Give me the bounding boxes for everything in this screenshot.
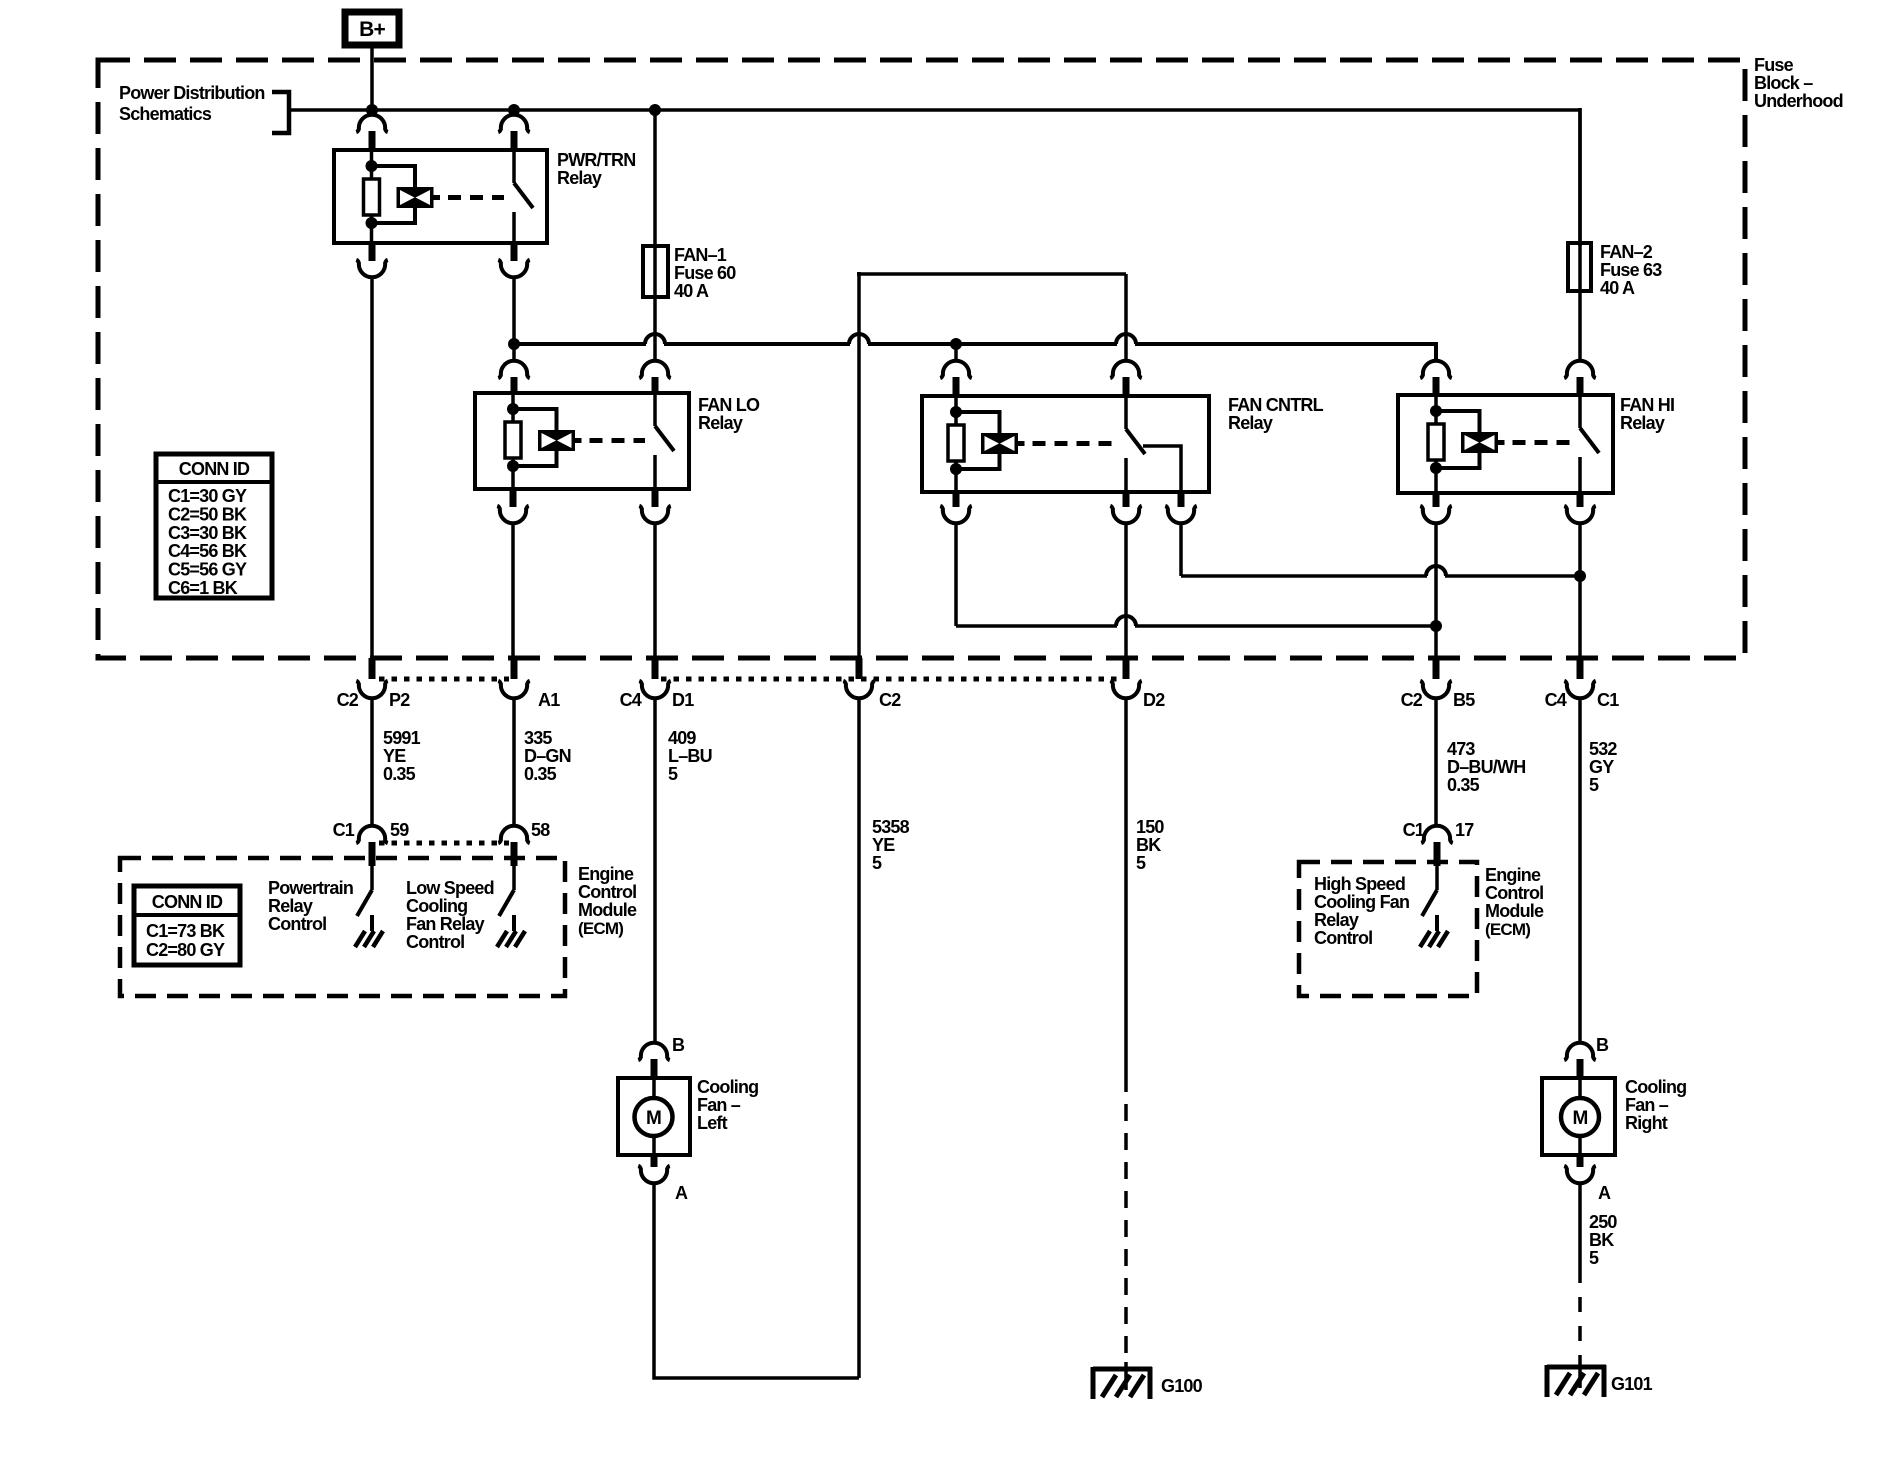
svg-text:P2: P2: [389, 690, 410, 710]
svg-text:FAN HI: FAN HI: [1620, 395, 1674, 415]
label circuit 409 L-BU 5: [668, 728, 712, 784]
svg-text:A: A: [675, 1183, 688, 1203]
wire: FAN LO coil low to A1: [511, 525, 515, 660]
label circuit 473 D-BU/WH 0.35: [1447, 739, 1525, 795]
FAN HI solenoid winding: [1436, 411, 1505, 468]
svg-text:M: M: [1572, 1108, 1587, 1129]
FAN HI switch contact: [1580, 395, 1599, 493]
FAN HI mechanical link (dashed): [1513, 440, 1571, 445]
svg-text:C4: C4: [620, 690, 642, 710]
svg-text:Fan –: Fan –: [1625, 1095, 1669, 1115]
svg-text:CONN ID: CONN ID: [152, 892, 223, 912]
Powertrain Relay Control label: [268, 878, 353, 934]
connector: FAN LO switch output: [639, 489, 670, 523]
svg-text:59: 59: [390, 820, 409, 840]
ground G101: [1547, 1355, 1653, 1397]
svg-text:C2=80 GY: C2=80 GY: [146, 940, 225, 960]
connector row terminal P2: [337, 658, 411, 710]
svg-text:Fuse 63: Fuse 63: [1600, 260, 1662, 280]
svg-text:40 A: 40 A: [1600, 278, 1635, 298]
svg-text:Right: Right: [1625, 1113, 1668, 1133]
wire circuit 150 unreferenced section (dashed): [1124, 1075, 1128, 1362]
relay FAN HI box: [1398, 395, 1613, 493]
fuse FAN-1 60 40A: [643, 246, 668, 297]
svg-text:Relay: Relay: [1620, 413, 1665, 433]
wire: FAN LO switch output to D1: [653, 525, 657, 660]
label circuit 150 BK 5: [1136, 817, 1164, 873]
svg-text:BK: BK: [1589, 1230, 1614, 1250]
ECM connector boundary (dotted) P2-A1: [379, 677, 509, 682]
svg-text:C2: C2: [879, 690, 901, 710]
connector: FAN HI switch terminal: [1564, 361, 1595, 397]
wire FAN-2 fuse to FAN HI switch: [1578, 108, 1582, 360]
wire: left fan return to relay loop: [654, 1185, 859, 1378]
PWR/TRN mechanical link (dashed): [448, 195, 504, 200]
connector row terminal D1: [620, 658, 695, 710]
svg-text:Block –: Block –: [1754, 73, 1813, 93]
svg-text:Control: Control: [1485, 883, 1543, 903]
FAN LO solenoid winding: [513, 409, 582, 466]
Fuse Block - Underhood label: [1754, 55, 1843, 111]
svg-text:C1=73 BK: C1=73 BK: [146, 921, 225, 941]
svg-text:Underhood: Underhood: [1754, 91, 1843, 111]
FAN LO mechanical link (dashed): [590, 438, 646, 443]
connector ECM pin 59 (C1): [333, 820, 410, 866]
connector: FAN CNTRL aux throw: [1165, 492, 1196, 523]
wire circuit 250 unreferenced section (dashed): [1578, 1268, 1582, 1355]
FAN-1 fuse label: [674, 245, 736, 301]
FAN HI label: [1620, 395, 1674, 433]
wire to PWR/TRN coil: [370, 110, 374, 114]
svg-text:G101: G101: [1611, 1374, 1653, 1394]
wire circuit 150 to G100: [1124, 700, 1128, 1075]
wire circuit 5358 (fan return): [857, 700, 861, 1378]
relay FAN LO box: [475, 393, 689, 489]
wire: FAN CNTRL coil low down: [954, 525, 958, 626]
svg-text:A1: A1: [538, 690, 560, 710]
svg-text:A: A: [1598, 1183, 1611, 1203]
wire circuit 5991: [370, 700, 374, 825]
label circuit 5991 YE 0.35: [383, 728, 421, 784]
PWR/TRN switch contact: [514, 150, 533, 243]
svg-text:C1=30 GY: C1=30 GY: [168, 486, 247, 506]
ECM connector boundary (dotted) D1-D2: [661, 677, 1121, 682]
wire B+ to FAN-1 fuse: [653, 110, 657, 360]
connector: FAN CNTRL switch terminal: [1110, 361, 1141, 398]
connector: FAN HI coil terminal: [1420, 361, 1451, 397]
connector: left fan terminal B: [638, 1035, 685, 1080]
PWR/TRN coil wire: [366, 150, 378, 243]
svg-text:C1: C1: [333, 820, 355, 840]
svg-text:(ECM): (ECM): [1485, 920, 1530, 939]
svg-text:473: 473: [1447, 739, 1475, 759]
wire hop over D2 wire: [1116, 616, 1136, 626]
node: FAN CNTRL coil junction: [950, 338, 962, 350]
connector: PWR/TRN coil low side: [356, 243, 387, 277]
svg-text:5: 5: [1589, 1248, 1599, 1268]
CONN ID table (fuse block): [156, 454, 272, 598]
wire: FAN HI coil low to B5: [1434, 525, 1438, 660]
wire hop over FAN CNTRL switch wire: [1116, 334, 1136, 344]
svg-text:YE: YE: [872, 835, 895, 855]
svg-text:GY: GY: [1589, 757, 1614, 777]
B+ battery feed terminal: [345, 12, 399, 45]
svg-text:FAN LO: FAN LO: [698, 395, 760, 415]
svg-text:0.35: 0.35: [383, 764, 416, 784]
PWR/TRN solenoid winding: [372, 166, 441, 223]
svg-text:5991: 5991: [383, 728, 421, 748]
svg-text:M: M: [646, 1108, 661, 1129]
svg-text:Cooling: Cooling: [1625, 1077, 1686, 1097]
svg-text:Low Speed: Low Speed: [406, 878, 494, 898]
connector: FAN LO coil terminal: [498, 360, 529, 395]
svg-text:B5: B5: [1453, 690, 1475, 710]
FAN LO switch contact: [655, 393, 674, 489]
FAN CNTRL mechanical link (dashed): [1033, 441, 1117, 446]
svg-text:B: B: [1596, 1035, 1609, 1055]
connector: PWR/TRN switch output: [498, 243, 529, 277]
connector: FAN LO coil low: [497, 489, 528, 523]
node: switched B+ / FAN LO coil junction: [508, 338, 520, 350]
wire: B+ bus across top: [289, 108, 1580, 112]
svg-text:C4=56 BK: C4=56 BK: [168, 541, 247, 561]
connector: FAN LO switch terminal: [639, 361, 670, 395]
svg-text:PWR/TRN: PWR/TRN: [557, 150, 635, 170]
svg-text:B+: B+: [359, 18, 385, 41]
svg-text:0.35: 0.35: [1447, 775, 1480, 795]
svg-text:D–BU/WH: D–BU/WH: [1447, 757, 1525, 777]
svg-text:B: B: [672, 1035, 685, 1055]
svg-text:Power Distribution: Power Distribution: [119, 83, 265, 103]
label circuit 335 D-GN 0.35: [524, 728, 571, 784]
wire B+ down to bus: [370, 45, 374, 110]
svg-text:C6=1 BK: C6=1 BK: [168, 578, 238, 598]
PWR/TRN coil resistor: [364, 179, 380, 215]
wire: left fan return riser: [857, 272, 861, 660]
svg-text:Powertrain: Powertrain: [268, 878, 353, 898]
svg-text:5: 5: [872, 853, 882, 873]
svg-text:532: 532: [1589, 739, 1617, 759]
svg-text:5: 5: [1589, 775, 1599, 795]
Low Speed Cooling Fan Relay Control label: [406, 878, 494, 952]
svg-text:BK: BK: [1136, 835, 1161, 855]
wire circuit 250: [1578, 1185, 1582, 1268]
svg-text:CONN ID: CONN ID: [179, 459, 250, 479]
svg-text:58: 58: [531, 820, 550, 840]
CONN ID table (ECM): [134, 886, 240, 965]
svg-text:150: 150: [1136, 817, 1164, 837]
svg-text:FAN CNTRL: FAN CNTRL: [1228, 395, 1324, 415]
svg-text:Cooling: Cooling: [697, 1077, 758, 1097]
svg-text:D2: D2: [1143, 690, 1165, 710]
Powertrain relay control driver switch: [357, 866, 372, 916]
wire to PWR/TRN switch: [512, 110, 516, 114]
FAN LO label: [698, 395, 760, 433]
FAN HI coil resistor: [1428, 424, 1444, 460]
motor: Cooling Fan Right: [1542, 1078, 1615, 1155]
relay PWR/TRN box: [334, 150, 547, 243]
wire circuit 532: [1578, 700, 1582, 1041]
node: junction B+/PWR-TRN coil: [366, 104, 378, 116]
svg-text:5: 5: [1136, 853, 1146, 873]
fuse FAN-2 63 40A: [1568, 243, 1591, 291]
svg-text:0.35: 0.35: [524, 764, 557, 784]
svg-text:L–BU: L–BU: [668, 746, 712, 766]
svg-text:5: 5: [668, 764, 678, 784]
node: junction B+/FAN-1 fuse: [649, 104, 661, 116]
svg-text:C3=30 BK: C3=30 BK: [168, 523, 247, 543]
wire: switched B+ down to coil bus: [512, 279, 516, 360]
svg-text:Fan –: Fan –: [697, 1095, 741, 1115]
Cooling Fan - Left label: [697, 1077, 758, 1133]
node: coil tie into FAN HI coil low: [1430, 620, 1442, 632]
svg-text:17: 17: [1455, 820, 1474, 840]
High Speed Cooling Fan Relay Control label: [1314, 874, 1409, 948]
wire: drop to FAN-2 fuse: [1578, 108, 1582, 246]
svg-text:Engine: Engine: [1485, 865, 1541, 885]
svg-text:Engine: Engine: [578, 864, 634, 884]
label circuit 532 GY 5: [1589, 739, 1617, 795]
FAN CNTRL switch contact: [1126, 396, 1145, 492]
svg-text:Relay: Relay: [557, 168, 602, 188]
svg-text:C5=56 GY: C5=56 GY: [168, 560, 247, 580]
ECM label (right): [1485, 865, 1544, 939]
svg-text:Fuse 60: Fuse 60: [674, 263, 736, 283]
FAN CNTRL switch to aux throw wire: [1143, 446, 1181, 492]
connector: FAN CNTRL switch common: [1110, 492, 1141, 523]
ground (high speed driver): [1420, 915, 1448, 947]
connector: PWR/TRN coil terminal: [356, 115, 387, 152]
svg-text:D1: D1: [672, 690, 694, 710]
wire: FAN HI switch output to C1: [1578, 525, 1582, 660]
svg-text:250: 250: [1589, 1212, 1617, 1232]
connector: right fan terminal A: [1564, 1155, 1611, 1203]
wire: aux throw down: [1179, 525, 1183, 576]
connector row terminal A1: [498, 658, 560, 710]
svg-text:Relay: Relay: [1228, 413, 1273, 433]
Cooling Fan - Right label: [1625, 1077, 1686, 1133]
svg-text:Module: Module: [1485, 901, 1544, 921]
connector: PWR/TRN switch terminal: [498, 115, 529, 152]
Power Distribution Schematics label: [119, 83, 265, 124]
wire: FAN CNTRL switch common to D2: [1124, 525, 1128, 660]
svg-text:Control: Control: [406, 932, 464, 952]
svg-text:Control: Control: [578, 882, 636, 902]
wire: circuit 5991 coil low side down: [370, 279, 374, 660]
svg-text:5358: 5358: [872, 817, 910, 837]
Engine Control Module (right) boundary dashed: [1299, 862, 1477, 996]
svg-text:FAN–1: FAN–1: [674, 245, 727, 265]
svg-text:G100: G100: [1161, 1376, 1203, 1396]
connector: FAN CNTRL coil terminal: [940, 344, 971, 398]
svg-text:C4: C4: [1545, 690, 1567, 710]
svg-text:FAN–2: FAN–2: [1600, 242, 1653, 262]
wire: loop top across: [857, 272, 1126, 276]
svg-text:Cooling: Cooling: [406, 896, 467, 916]
relay FAN CNTRL box: [922, 396, 1209, 492]
svg-text:Relay: Relay: [698, 413, 743, 433]
wire: aux throw over to FAN HI output: [1181, 574, 1580, 578]
connector: FAN CNTRL coil low: [940, 492, 971, 523]
connector: FAN HI coil low: [1420, 493, 1451, 523]
label circuit 250 BK 5: [1589, 1212, 1617, 1268]
svg-text:C2=50 BK: C2=50 BK: [168, 504, 247, 524]
wire circuit 409: [653, 700, 657, 1041]
wire hop over fan return wire: [849, 334, 869, 344]
connector: left fan terminal A: [638, 1155, 688, 1203]
PWR/TRN label: [557, 150, 635, 188]
ground (powertrain driver): [355, 915, 383, 947]
svg-text:C2: C2: [1401, 690, 1423, 710]
wire: relay coil supply bus: [514, 342, 1436, 360]
svg-text:YE: YE: [383, 746, 406, 766]
svg-text:Module: Module: [578, 900, 637, 920]
svg-text:C1: C1: [1597, 690, 1619, 710]
wire circuit 335: [512, 700, 516, 825]
ground G100: [1093, 1362, 1203, 1399]
FAN LO coil resistor: [505, 422, 521, 458]
svg-text:Cooling Fan: Cooling Fan: [1314, 892, 1409, 912]
wire circuit 473: [1434, 700, 1438, 825]
label circuit 5358 YE 5: [872, 817, 910, 873]
connector row terminal C1: [1545, 658, 1620, 710]
Fuse Block - Underhood boundary (dashed): [98, 60, 1745, 658]
svg-text:Relay: Relay: [268, 896, 313, 916]
connector: FAN HI switch output: [1564, 493, 1595, 523]
svg-text:Fan Relay: Fan Relay: [406, 914, 485, 934]
svg-text:C1: C1: [1403, 820, 1425, 840]
connector ECM pin 58: [498, 820, 550, 866]
svg-text:(ECM): (ECM): [578, 919, 623, 938]
connector ECM pin 17 (C1): [1403, 820, 1475, 866]
FAN CNTRL coil wire: [950, 396, 962, 492]
wire hop over FAN-1 feed: [645, 334, 665, 344]
FAN-2 fuse label: [1600, 242, 1662, 298]
svg-text:Schematics: Schematics: [119, 104, 212, 124]
connector: right fan terminal B: [1564, 1035, 1609, 1080]
node: tie into FAN HI switch output: [1574, 570, 1586, 582]
ECM pin boundary (dotted) 59-58: [379, 841, 509, 846]
svg-text:Fuse: Fuse: [1754, 55, 1794, 75]
FAN CNTRL solenoid winding: [956, 412, 1025, 469]
svg-text:409: 409: [668, 728, 696, 748]
node: junction B+/PWR-TRN switch: [508, 104, 520, 116]
FAN LO coil wire: [507, 393, 519, 489]
svg-text:Control: Control: [268, 914, 326, 934]
connector row terminal B5: [1401, 658, 1476, 710]
svg-text:335: 335: [524, 728, 552, 748]
svg-text:40 A: 40 A: [674, 281, 709, 301]
bracket to power distribution: [272, 92, 289, 133]
wire: drop to FAN CNTRL switch: [1124, 274, 1128, 360]
wire hop over FAN HI coil wire: [1426, 566, 1446, 576]
motor: Cooling Fan Left: [618, 1078, 690, 1155]
Low speed fan relay driver switch: [499, 866, 514, 916]
FAN CNTRL label: [1228, 395, 1324, 433]
wire: FAN CNTRL coil to FAN HI coil tie: [956, 624, 1436, 628]
svg-text:High Speed: High Speed: [1314, 874, 1405, 894]
svg-text:C2: C2: [337, 690, 359, 710]
Engine Control Module (left) boundary dashed: [120, 858, 565, 996]
ground (low speed driver): [497, 915, 525, 947]
svg-text:D–GN: D–GN: [524, 746, 571, 766]
FAN HI coil wire: [1430, 395, 1442, 493]
ECM label (left): [578, 864, 637, 938]
High speed fan relay driver switch: [1422, 866, 1437, 916]
svg-text:Relay: Relay: [1314, 910, 1359, 930]
svg-text:Control: Control: [1314, 928, 1372, 948]
svg-text:Left: Left: [697, 1113, 728, 1133]
connector row terminal C2: [843, 658, 901, 710]
FAN CNTRL coil resistor: [948, 425, 964, 461]
connector row terminal D2: [1110, 658, 1165, 710]
